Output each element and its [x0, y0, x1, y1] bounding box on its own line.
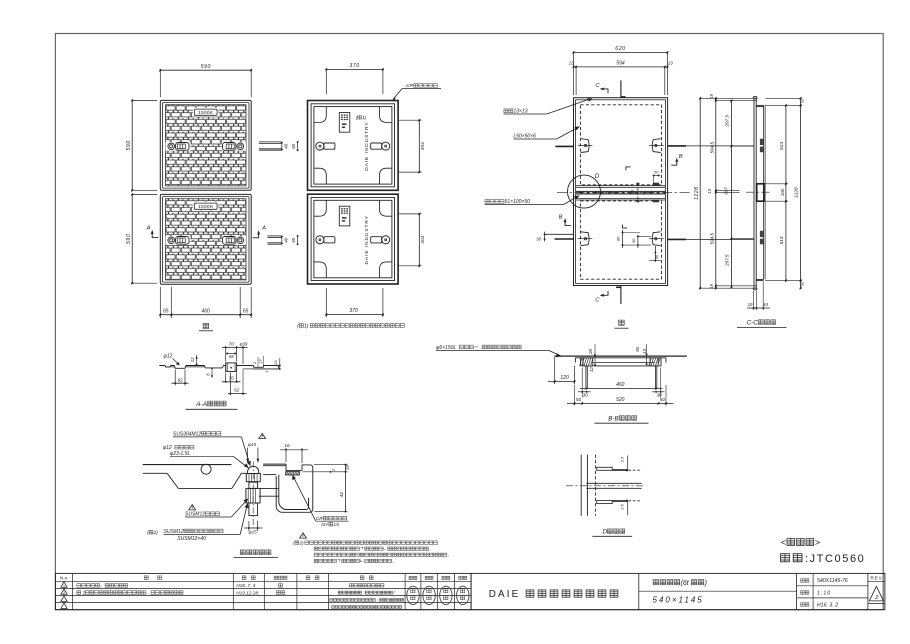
- svg-text:594.5: 594.5: [709, 142, 714, 154]
- svg-text:460: 460: [616, 382, 625, 388]
- svg-text:φ6×150L: φ6×150L: [436, 345, 456, 351]
- svg-text:SUSM12: SUSM12: [164, 529, 184, 535]
- B-B anchor block right: [649, 358, 661, 389]
- svg-text:13: 13: [707, 188, 712, 193]
- svg-text:460: 460: [202, 308, 211, 314]
- revision rows: [61, 582, 404, 609]
- label 枠 (frame): [615, 320, 629, 328]
- svg-text:A: A: [146, 226, 151, 232]
- svg-text:514: 514: [779, 236, 785, 244]
- label 角パイプ 51×100×50 with leader: [485, 195, 580, 205]
- svg-text:50: 50: [660, 397, 666, 402]
- svg-text:）: ）: [393, 590, 397, 595]
- svg-text:58: 58: [229, 354, 234, 359]
- svg-text::JTC0560: :JTC0560: [805, 553, 866, 565]
- C-C centre square pipe section: [757, 184, 764, 201]
- B-B dim 460: [580, 382, 663, 390]
- svg-text:590: 590: [201, 64, 211, 70]
- svg-text:2.5: 2.5: [620, 456, 625, 463]
- svg-text:30: 30: [536, 236, 541, 241]
- B-B anchor block left: [580, 358, 593, 389]
- dimension 370 (top, back view): [325, 63, 384, 94]
- C-C dims 19/44 bottom: [747, 282, 770, 311]
- lifting-bar stubs right of cover 2 with dims 40/60: [267, 235, 298, 245]
- dimension 590 (left height cover 1): [126, 99, 157, 192]
- C-C centreline: [746, 191, 772, 193]
- svg-text:594.5: 594.5: [709, 233, 714, 245]
- svg-text:120: 120: [560, 375, 569, 381]
- fixing detail: CR packing hatched: [285, 472, 300, 475]
- label 角鋼 13×13 with leader: [504, 98, 593, 114]
- svg-text:D: D: [603, 529, 608, 536]
- svg-text:C-C: C-C: [747, 319, 759, 326]
- svg-text:B: B: [679, 154, 683, 160]
- cover top view 1 (590x590 grated lid): [160, 100, 251, 190]
- svg-text:H19.12.28: H19.12.28: [236, 590, 258, 595]
- D部詳細 detail drawing: [581, 455, 595, 516]
- D detail top cross-bar with weld: [597, 467, 642, 471]
- C-C dim 50/1128/50 (far right): [766, 97, 805, 290]
- dims 80/50 bottom half: [617, 230, 652, 249]
- C-C dim 1228 (left): [694, 97, 701, 290]
- svg-text:297.5: 297.5: [725, 115, 730, 128]
- svg-text:D: D: [595, 173, 600, 180]
- anchor tab right, top half: [649, 139, 664, 153]
- cover back view 2: [308, 194, 399, 284]
- dim 50 below tab bottom half: [649, 246, 661, 262]
- svg-text:φ39: φ39: [240, 341, 248, 346]
- svg-text:304: 304: [420, 236, 426, 244]
- svg-text:1:10: 1:10: [817, 590, 831, 596]
- svg-text:62: 62: [234, 387, 239, 392]
- svg-text:(6t: (6t: [681, 580, 690, 587]
- svg-text:2): 2): [153, 530, 159, 536]
- section arrow A right: [253, 226, 267, 238]
- fixing detail right dims 19/2/44: [303, 464, 350, 513]
- svg-text:1500K: 1500K: [198, 110, 213, 115]
- svg-text:50: 50: [635, 346, 640, 351]
- dimension 590 (top width of cover): [159, 64, 252, 97]
- svg-text:): ): [704, 580, 707, 587]
- anchor tab left, top half: [578, 139, 593, 153]
- svg-text:DAIE INDUSTRY: DAIE INDUSTRY: [364, 215, 370, 264]
- dimension 304 right of back view 2: [399, 213, 426, 268]
- svg-text:590: 590: [126, 234, 132, 244]
- svg-text:370: 370: [349, 63, 359, 69]
- svg-text:520: 520: [616, 397, 625, 403]
- section mark B left-bottom: [559, 215, 571, 226]
- corner mark L (bottom half): [623, 225, 628, 228]
- svg-text:28: 28: [588, 349, 593, 355]
- svg-text:62: 62: [178, 377, 183, 382]
- svg-text:297.5: 297.5: [725, 254, 730, 267]
- label C-C断面図: [737, 319, 787, 327]
- svg-text:2): 2): [298, 540, 304, 545]
- svg-text:514: 514: [779, 142, 785, 150]
- label B-B断面図: [595, 415, 649, 423]
- dimension 370 (bottom, back view): [325, 288, 384, 317]
- dim 50 top-half near bar: [653, 170, 660, 184]
- B-B section body: [554, 356, 687, 366]
- label D部詳細: [592, 529, 632, 537]
- dimension 13/594/13 (frame top): [569, 61, 674, 95]
- text 品番 JTC0560: [781, 553, 866, 565]
- fixing detail labels: [147, 431, 349, 542]
- D detail centre square-pipe bar edge: [566, 483, 646, 488]
- dimension 65/460/65 (bottom of covers): [159, 287, 252, 318]
- revision table: [55, 573, 471, 609]
- svg-text:40: 40: [284, 143, 289, 148]
- B-B dims 28 13 50 12: [588, 344, 648, 372]
- C-C dim chain 19/594.5/13/594.5/19: [707, 93, 739, 289]
- D detail bottom cross-bar with weld: [597, 500, 642, 504]
- svg-text:H16. 3. 2: H16. 3. 2: [817, 602, 838, 608]
- svg-text:t3×: t3×: [321, 522, 328, 528]
- REV box: [868, 575, 885, 603]
- svg-text:1228: 1228: [694, 187, 700, 200]
- text 現行品: [781, 538, 821, 549]
- svg-text:>: >: [815, 538, 821, 549]
- svg-text:13: 13: [569, 61, 575, 66]
- drawing number cells: [801, 578, 848, 608]
- svg-text:70: 70: [229, 376, 234, 381]
- svg-text:50: 50: [799, 281, 804, 286]
- anchor stub right, top half (extends to C-C section): [668, 145, 754, 147]
- A-A dims: [164, 341, 281, 395]
- svg-text:SUS304M12: SUS304M12: [173, 431, 202, 437]
- svg-text:φ15: φ15: [249, 530, 258, 535]
- title block: [471, 573, 885, 609]
- section arrow A left: [146, 226, 159, 238]
- svg-text:DAIE: DAIE: [489, 589, 521, 600]
- svg-text:607: 607: [724, 187, 729, 195]
- frame plan view (620x1228 outer): [574, 98, 668, 286]
- centreline through frame (dash-dot): [557, 192, 690, 194]
- B-B dims 30/30: [578, 368, 665, 398]
- svg-text:1: 1: [63, 584, 65, 588]
- B-B dim 120: [548, 357, 575, 384]
- cover back view 1: [308, 101, 399, 191]
- product name: [653, 580, 707, 605]
- svg-text:60: 60: [291, 143, 296, 148]
- svg-text:SUSM12×40: SUSM12×40: [177, 536, 206, 542]
- label 固定部詳細: [234, 550, 279, 558]
- D detail dims 2.5: [620, 456, 628, 516]
- svg-text:φ12: φ12: [164, 354, 173, 360]
- svg-text:590: 590: [126, 140, 132, 150]
- svg-text:540X1145-76: 540X1145-76: [817, 578, 848, 584]
- svg-text:70: 70: [229, 341, 234, 346]
- anchor tab left, bottom half: [578, 232, 593, 246]
- C-C anchor sections top: [760, 139, 764, 153]
- svg-text:φ15: φ15: [248, 442, 257, 447]
- corner mark Γ: [626, 167, 631, 170]
- svg-text:12: 12: [589, 366, 594, 371]
- svg-text:<: <: [781, 538, 787, 549]
- svg-text:16: 16: [284, 443, 290, 449]
- svg-text:2.5: 2.5: [620, 503, 625, 510]
- svg-text:B-B: B-B: [608, 415, 618, 422]
- svg-text:30: 30: [583, 393, 589, 398]
- svg-text:1): 1): [362, 115, 367, 120]
- section cut C bottom: [595, 286, 621, 305]
- svg-text:15: 15: [333, 522, 339, 528]
- label φ6×150L アンカー 現場折り曲げ溶接: [436, 345, 561, 358]
- svg-text:19: 19: [345, 465, 350, 470]
- section cut C top: [595, 80, 625, 97]
- fixing detail: frame section right: [259, 464, 313, 512]
- section mark B right: [671, 154, 683, 165]
- svg-text:1: 1: [265, 371, 269, 373]
- note 注2 long text: [293, 533, 448, 563]
- svg-text:620: 620: [615, 46, 625, 52]
- note (注1) 蓋裏面にはロット番号及び材質を鋳出する: [297, 323, 404, 329]
- svg-text:1): 1): [304, 323, 309, 329]
- dimension 620 (frame top): [573, 46, 669, 95]
- svg-text:65: 65: [243, 308, 249, 314]
- anchor stub left, bottom half with 30 dim: [536, 232, 573, 242]
- C-C dim 514/100/514 (right): [764, 104, 802, 282]
- fixing detail: cover section: [143, 464, 246, 488]
- svg-text:REV: REV: [871, 575, 883, 580]
- svg-text:44: 44: [339, 492, 345, 498]
- svg-text:1128: 1128: [794, 187, 800, 198]
- anchor stub right, bottom half (extends to C-C section): [668, 238, 754, 240]
- svg-text:60: 60: [291, 237, 296, 242]
- svg-text:65: 65: [163, 308, 169, 314]
- company name: [489, 589, 618, 600]
- svg-text:2: 2: [63, 591, 65, 595]
- cover top view 2 (590x590 grated lid): [160, 194, 251, 284]
- svg-text:19: 19: [748, 302, 753, 307]
- svg-text:No: No: [60, 576, 68, 582]
- svg-text:40: 40: [284, 237, 289, 242]
- svg-text:13: 13: [668, 61, 674, 66]
- cross-bar end connection marks near centre bar: [631, 183, 659, 203]
- svg-text:304: 304: [420, 142, 426, 150]
- svg-text:A-A: A-A: [195, 401, 208, 408]
- svg-text:1500K: 1500K: [198, 204, 213, 209]
- svg-text:50: 50: [799, 98, 804, 103]
- svg-text:DAIE INDUSTRY: DAIE INDUSTRY: [364, 121, 370, 170]
- lifting-bar stubs right of cover 1 with dims 40/60: [259, 141, 299, 151]
- svg-text:B: B: [559, 215, 563, 221]
- anchor tab right, bottom half: [649, 232, 664, 246]
- svg-text:12: 12: [190, 357, 195, 362]
- label CR製パッキン with leader: [392, 83, 441, 101]
- anchor stub left, top half: [555, 145, 573, 147]
- dimension 304 right of back view 1: [399, 119, 426, 173]
- dimension 590 (left height cover 2): [126, 193, 157, 284]
- svg-text:100: 100: [780, 188, 785, 196]
- svg-text:22: 22: [273, 360, 278, 366]
- label A-A断面図: [186, 401, 238, 409]
- approval stamps: [407, 586, 469, 604]
- C-C anchor sections bottom: [760, 231, 764, 245]
- label L50×50×6 with leader: [513, 126, 580, 139]
- B-B dim 50/520/50: [567, 385, 674, 406]
- svg-text:H18. 7. 4: H18. 7. 4: [236, 583, 255, 588]
- A-A section body: [159, 363, 278, 372]
- fixing detail: bolt assembly: [246, 462, 260, 529]
- C-C top extension lines: [700, 98, 757, 288]
- C-C dim chain 297.5/607/297.5: [724, 99, 754, 288]
- svg-text:540×1145: 540×1145: [653, 596, 704, 605]
- revision table headers: [60, 576, 467, 582]
- svg-text:594: 594: [616, 61, 625, 67]
- detail circle D: [568, 173, 601, 208]
- svg-text:44: 44: [763, 302, 768, 307]
- svg-text:A: A: [261, 226, 266, 232]
- C-C section body: [753, 97, 765, 290]
- svg-text:370: 370: [349, 308, 358, 314]
- label 蓋 (lid): [199, 323, 213, 331]
- svg-text:50: 50: [576, 397, 582, 402]
